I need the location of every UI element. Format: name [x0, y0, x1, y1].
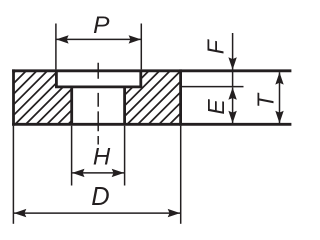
svg-text:E: E [203, 99, 229, 115]
svg-text:D: D [91, 183, 109, 211]
svg-text:H: H [93, 144, 111, 171]
svg-text:F: F [202, 38, 228, 54]
svg-text:P: P [93, 12, 110, 39]
svg-text:T: T [252, 92, 278, 108]
